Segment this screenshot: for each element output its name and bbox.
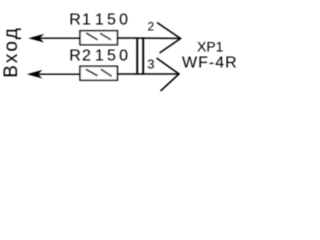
svg-text:3: 3: [147, 57, 154, 72]
svg-text:Вход: Вход: [1, 26, 22, 78]
svg-text:R1 150: R1 150: [69, 12, 131, 29]
svg-text:XP1: XP1: [197, 38, 224, 54]
connector XP1 double line: [137, 37, 143, 74]
svg-text:R2 150: R2 150: [69, 47, 131, 64]
wire (row 1, left segment with input arrow): [30, 35, 80, 42]
svg-text:2: 2: [148, 20, 155, 34]
pin 2 arrow (chevron): [157, 23, 181, 54]
pin 3 arrow (chevron): [157, 58, 180, 91]
resistor R1: [80, 31, 117, 45]
wire (row 1, right segment to pin 2): [118, 37, 181, 39]
svg-text:WF-4R: WF-4R: [182, 55, 238, 72]
wire (row 2, right segment to pin 3): [118, 73, 179, 75]
resistor R2: [80, 66, 117, 80]
wire (row 2, left segment with input arrow): [29, 71, 80, 78]
